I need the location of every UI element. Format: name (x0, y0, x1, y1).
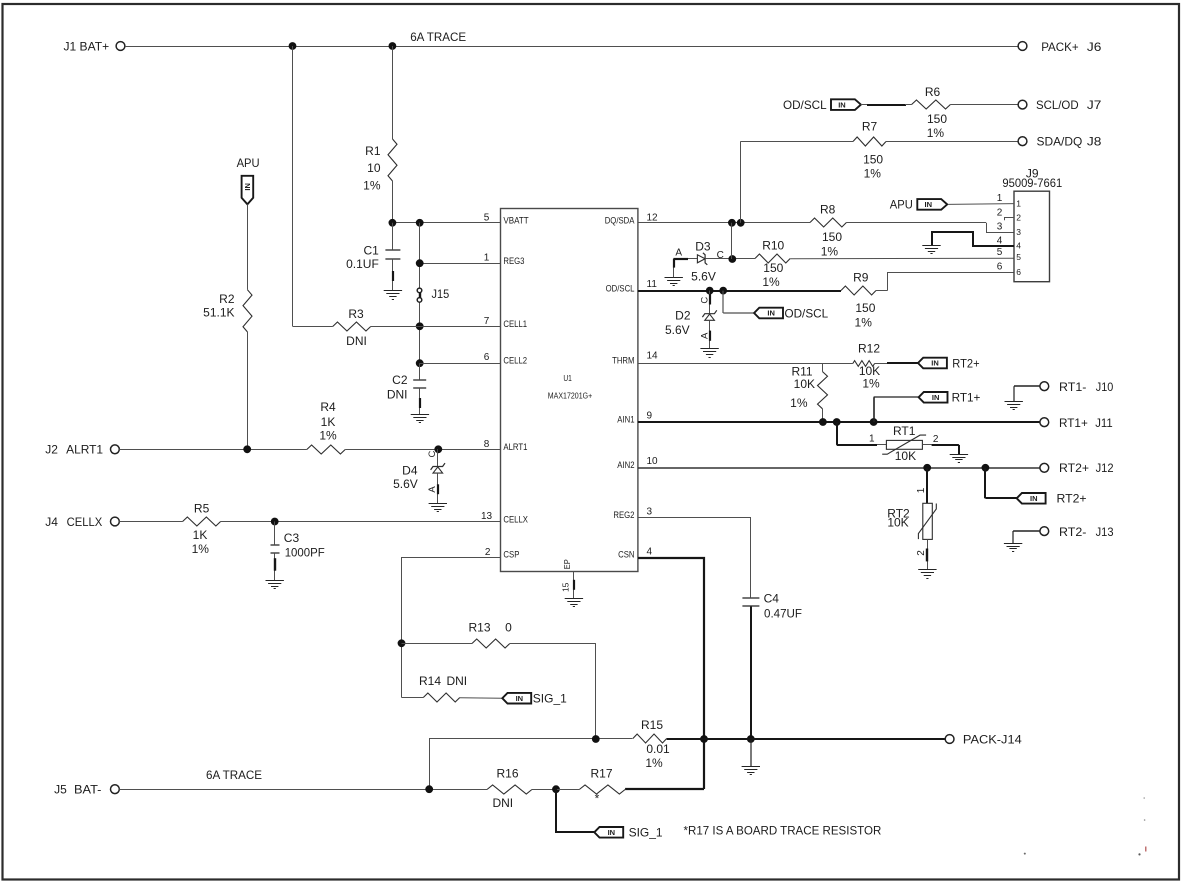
wire C2 to ground (419, 388, 422, 414)
wire C1 to ground (392, 259, 395, 291)
terminal J2 ALRT1 (45, 443, 119, 457)
pin number 4 CSN (647, 547, 653, 558)
IC U1 MAX17201G+ (501, 209, 638, 572)
resistor R16 (487, 767, 532, 811)
svg-text:IN: IN (932, 393, 940, 402)
svg-text:51.1K: 51.1K (203, 306, 234, 320)
svg-text:1%: 1% (363, 178, 381, 192)
junction CELL1 (416, 322, 424, 330)
resistor R4 (307, 400, 345, 454)
J9 pin 2 stub (1004, 218, 1014, 221)
resistor R5 (183, 502, 221, 556)
junction C4 PACK- (747, 735, 755, 743)
ground below C1 (384, 291, 402, 300)
svg-text:J1 BAT+: J1 BAT+ (64, 39, 110, 53)
svg-text:IN: IN (1030, 494, 1038, 503)
pin number 12 DQ/SDA (647, 212, 659, 223)
jumper J15 (417, 287, 449, 302)
node APU (top-left) (237, 156, 260, 204)
junction R10 line (728, 255, 736, 263)
U1 pin name REG3 (503, 256, 524, 267)
wire R6 to J7 (950, 104, 1018, 106)
junction OD/SCL B (719, 287, 727, 295)
svg-text:IN: IN (838, 100, 846, 109)
resistor R7 (853, 119, 886, 180)
label 6A TRACE top (410, 30, 466, 44)
U1 pin name ALRT1 (503, 442, 527, 453)
ground below EP (565, 599, 583, 607)
wire J13 to ground (1013, 531, 1040, 543)
terminal J11 RT1+ (1040, 416, 1113, 430)
junction CELL2 (416, 359, 424, 367)
wire APU to J9 pin 1 (948, 203, 1014, 206)
svg-text:150: 150 (763, 261, 783, 275)
svg-text:CELLX: CELLX (503, 514, 528, 525)
pin number 6 CELL2 (484, 352, 490, 363)
wire AIN1 pin 9 (thick) (638, 421, 1040, 423)
ground below C2 (411, 415, 429, 423)
svg-text:*: * (595, 792, 600, 806)
svg-text:1%: 1% (762, 275, 780, 289)
J9 outside pin numbers (997, 193, 1003, 272)
wire C3 to ground (274, 553, 277, 580)
label 6A TRACE bottom (206, 768, 262, 782)
svg-text:R16: R16 (496, 767, 518, 781)
svg-text:5.6V: 5.6V (665, 323, 690, 337)
svg-text:RT2+: RT2+ (1057, 492, 1087, 506)
pin number 9 AIN1 (647, 410, 653, 421)
U1 pin EP label (562, 559, 572, 569)
diode D3 (675, 240, 724, 284)
svg-text:IN: IN (931, 359, 939, 368)
svg-text:J12: J12 (1096, 461, 1114, 475)
svg-text:ALRT1: ALRT1 (503, 442, 527, 453)
svg-text:1K: 1K (321, 415, 336, 429)
J9 inside pin numbers (1016, 198, 1021, 276)
terminal J8 SDA/DQ (1018, 135, 1102, 149)
svg-text:PACK+: PACK+ (1041, 40, 1078, 54)
node RT2+ (THRM flag) (918, 356, 980, 370)
wire REG3 pin 1 (420, 263, 500, 265)
svg-text:3: 3 (997, 222, 1003, 233)
svg-text:RT2+: RT2+ (1059, 461, 1089, 475)
svg-text:REG3: REG3 (503, 256, 524, 267)
resistor R1 (363, 139, 397, 192)
junction VBATT B (416, 219, 424, 227)
svg-text:5: 5 (1016, 252, 1021, 262)
svg-text:IN: IN (516, 694, 524, 703)
capacitor C3 (271, 531, 325, 559)
wire REG2 pin 3 (638, 517, 751, 598)
wire APU to R2 (247, 204, 249, 289)
svg-text:DNI: DNI (492, 796, 513, 810)
pin number 13 CELLX (481, 511, 493, 522)
svg-text:R10: R10 (762, 238, 784, 252)
svg-text:C: C (717, 250, 724, 261)
pin number 7 CELL1 (484, 316, 490, 327)
wire VBATT pin 5 (392, 222, 500, 224)
wire BAT- row (119, 789, 556, 791)
svg-text:R12: R12 (858, 342, 880, 356)
svg-text:6A TRACE: 6A TRACE (410, 30, 466, 44)
svg-text:4: 4 (647, 547, 653, 558)
wire J9 pin 4 to ground (thick) (932, 232, 1014, 246)
wire VBATT junction down to CELL2 (419, 223, 421, 363)
svg-text:R13: R13 (468, 620, 490, 634)
svg-text:C4: C4 (764, 592, 780, 606)
svg-text:6: 6 (997, 262, 1003, 273)
svg-text:8: 8 (484, 439, 490, 450)
wire PACK- left segment (430, 739, 633, 790)
svg-text:RT1+: RT1+ (1059, 416, 1088, 430)
resistor R13 (402, 620, 513, 648)
junction AIN1 C (870, 418, 878, 426)
svg-text:1: 1 (997, 193, 1003, 204)
svg-text:11: 11 (647, 279, 658, 290)
svg-text:C2: C2 (392, 373, 408, 387)
svg-text:CELL1: CELL1 (503, 319, 527, 330)
wire R13 to PACK- line (510, 643, 596, 739)
svg-text:RT1+: RT1+ (952, 391, 981, 405)
svg-text:2: 2 (916, 550, 927, 556)
pin number 8 ALRT1 (484, 439, 490, 450)
svg-text:SCL/OD: SCL/OD (1036, 98, 1079, 112)
svg-text:5: 5 (484, 212, 490, 223)
U1 pin name AIN2 (617, 460, 634, 471)
svg-text:D4: D4 (402, 463, 418, 477)
junction AIN2 A (923, 464, 931, 472)
U1 pin number 15 EP (561, 582, 571, 592)
U1 pin name CSP (503, 550, 519, 561)
U1 pin name CSN (618, 550, 635, 561)
svg-text:6: 6 (484, 352, 490, 363)
junction REG3 (416, 259, 424, 267)
svg-text:R6: R6 (925, 85, 941, 99)
svg-text:1%: 1% (862, 376, 880, 390)
terminal J4 CELLX (45, 515, 119, 529)
svg-text:D2: D2 (675, 309, 691, 323)
ground left of D3 (665, 278, 683, 286)
svg-text:VBATT: VBATT (503, 216, 528, 227)
svg-text:4: 4 (1016, 241, 1021, 251)
svg-text:7: 7 (484, 316, 490, 327)
thermistor RT2 (887, 487, 936, 555)
note *R17 IS A BOARD TRACE RESISTOR (684, 824, 882, 838)
junction AIN2 B (982, 464, 990, 472)
wire THRM pin 14 (638, 362, 918, 365)
resistor R2 (203, 290, 252, 332)
svg-text:2: 2 (997, 207, 1003, 218)
junction CELLX (271, 518, 279, 526)
svg-text:150: 150 (863, 152, 883, 166)
wire R16 to R17 (556, 789, 579, 791)
pin number 1 REG3 (484, 253, 490, 264)
svg-text:1000PF: 1000PF (285, 545, 325, 559)
U1 pin name VBATT (503, 216, 528, 227)
svg-text:150: 150 (855, 301, 875, 315)
svg-text:DNI: DNI (346, 334, 367, 348)
ground below J13 (1004, 544, 1022, 552)
wire CSP vertical to R14 (402, 697, 424, 699)
node APU (J9 flag) (890, 198, 947, 212)
svg-text:IN: IN (608, 828, 616, 837)
svg-text:R15: R15 (641, 718, 663, 732)
svg-text:RT1: RT1 (893, 424, 916, 438)
svg-text:REG2: REG2 (613, 510, 634, 521)
resistor R11 (790, 363, 827, 410)
resistor R9 (841, 271, 876, 330)
junction AIN1 B (833, 418, 841, 426)
svg-text:A: A (427, 486, 438, 493)
ground below RT2 (918, 570, 936, 579)
terminal J14 PACK- (945, 732, 1022, 746)
wire RT1 pin 2 to ground (922, 445, 959, 455)
pin number 10 AIN2 (647, 456, 659, 467)
capacitor C4 (742, 592, 802, 621)
thermistor RT1 (869, 424, 939, 463)
svg-text:J5: J5 (54, 783, 67, 797)
svg-text:DNI: DNI (387, 388, 408, 402)
svg-text:5: 5 (997, 247, 1003, 258)
resistor R15 (633, 718, 670, 770)
svg-text:J13: J13 (1096, 525, 1114, 539)
junction R13 line (398, 639, 406, 647)
wire R1 to VBATT (392, 181, 394, 223)
svg-text:10K: 10K (887, 515, 908, 529)
svg-text:C3: C3 (284, 531, 300, 545)
svg-text:APU: APU (237, 156, 260, 170)
U1 pin name CELLX (503, 514, 528, 525)
U1 pin name CELL1 (503, 319, 527, 330)
svg-text:AIN1: AIN1 (617, 414, 634, 425)
svg-text:6A TRACE: 6A TRACE (206, 768, 262, 782)
svg-text:5.6V: 5.6V (393, 477, 418, 491)
svg-text:J10: J10 (1096, 380, 1114, 394)
U1 EP pin stem (573, 572, 576, 599)
wire AIN2 pin 10 (638, 467, 1040, 469)
wire R17 to CSN vertical (thick) (625, 788, 704, 790)
svg-text:RT1-: RT1- (1059, 380, 1086, 394)
wire R2 to ALRT1 (247, 332, 249, 449)
svg-text:0.01: 0.01 (646, 742, 670, 756)
junction OD/SCL A (706, 287, 714, 295)
svg-text:J15: J15 (432, 287, 450, 301)
svg-text:1%: 1% (645, 756, 663, 770)
wire CELL2 to C2 (419, 363, 421, 379)
diode D4 (393, 449, 445, 503)
wire BAT+ to R1 (392, 46, 394, 139)
svg-text:AIN2: AIN2 (617, 460, 634, 471)
node RT1+ (flag) (874, 391, 981, 422)
svg-text:R2: R2 (219, 292, 235, 306)
terminal J7 SCL/OD (1018, 98, 1102, 112)
svg-text:1K: 1K (193, 528, 208, 542)
svg-text:RT2-: RT2- (1059, 525, 1086, 539)
terminal J5 BAT- (54, 783, 119, 797)
wire D3 anode (674, 259, 698, 278)
wire R10 to J9 pin 5 (790, 257, 1014, 260)
svg-text:CELL2: CELL2 (503, 356, 527, 367)
svg-text:IN: IN (767, 309, 775, 318)
resistor R10 (755, 238, 790, 289)
svg-text:R3: R3 (348, 307, 364, 321)
svg-text:2: 2 (1016, 213, 1021, 223)
svg-text:1: 1 (869, 434, 875, 445)
junction ALRT1 B (434, 445, 442, 453)
wire junction to ground (750, 739, 752, 766)
node OD/SCL (top flag) (783, 98, 861, 112)
ground below D4 (429, 504, 447, 512)
svg-text:A: A (675, 247, 682, 258)
wire R15 to J14 (thick) (667, 738, 946, 740)
svg-text:0.1UF: 0.1UF (346, 257, 379, 271)
wire CELL1 pin 7 (293, 326, 501, 328)
wire OD/SCL pin 11 (thick) (638, 290, 841, 292)
svg-text:THRM: THRM (612, 356, 634, 367)
svg-text:IN: IN (925, 200, 933, 209)
node RT2+ (lower flag) (985, 468, 1087, 506)
svg-text:10K: 10K (794, 377, 815, 391)
svg-text:2: 2 (933, 434, 939, 445)
svg-text:SIG_1: SIG_1 (629, 826, 663, 840)
svg-text:4: 4 (997, 235, 1003, 246)
svg-text:CSN: CSN (618, 550, 635, 561)
svg-text:MAX17201G+: MAX17201G+ (548, 390, 592, 400)
svg-text:R17: R17 (590, 767, 612, 781)
svg-text:IN: IN (243, 183, 252, 191)
node OD/SCL (mid flag) (723, 291, 828, 321)
wire AIN2 to RT2 (thick) (926, 468, 928, 504)
ground below J10 (1005, 402, 1023, 410)
pin number 14 THRM (647, 350, 659, 361)
terminal J6 PACK+ (1018, 40, 1102, 54)
svg-text:OD/SCL: OD/SCL (606, 283, 635, 294)
svg-text:1%: 1% (927, 126, 945, 140)
wire CSP pin 2 (402, 558, 501, 698)
junction ALRT1 A (243, 445, 251, 453)
U1 pin name OD/SCL (606, 283, 635, 294)
svg-text:2: 2 (485, 547, 491, 558)
node SIG_1 (bottom flag) (556, 789, 663, 840)
svg-text:DNI: DNI (446, 674, 467, 688)
pin number 3 REG2 (647, 506, 653, 517)
resistor R6 (912, 85, 951, 140)
svg-text:PACK-J14: PACK-J14 (963, 732, 1022, 746)
resistor R14 (419, 674, 467, 702)
wire CELLX to C3 (274, 522, 276, 545)
svg-text:14: 14 (647, 350, 659, 361)
terminal J13 RT2- (1040, 525, 1114, 539)
svg-text:R4: R4 (320, 400, 336, 414)
wire R11 to AIN1 (822, 409, 824, 422)
wire ALRT1 pin 8 (119, 449, 500, 451)
wire D3 cathode to junction (706, 258, 755, 260)
svg-text:CSP: CSP (503, 550, 519, 561)
svg-text:1%: 1% (192, 542, 210, 556)
svg-text:U1: U1 (563, 373, 572, 383)
svg-text:CELLX: CELLX (67, 515, 103, 529)
node SIG_1 (mid flag) (460, 692, 567, 706)
svg-text:1%: 1% (855, 316, 873, 330)
svg-text:R1: R1 (365, 144, 381, 158)
svg-text:J8: J8 (1087, 135, 1102, 149)
svg-text:150: 150 (927, 112, 947, 126)
svg-text:C1: C1 (363, 243, 379, 257)
wire R7 net (741, 141, 1019, 223)
svg-text:R14: R14 (419, 674, 441, 688)
svg-text:SDA/DQ: SDA/DQ (1037, 135, 1083, 149)
svg-text:OD/SCL: OD/SCL (785, 306, 829, 320)
speck marks bottom right (1024, 797, 1147, 855)
svg-text:RT2+: RT2+ (952, 356, 979, 370)
junction AIN1 A (819, 418, 827, 426)
svg-text:J4: J4 (45, 515, 58, 529)
U1 pin name REG2 (613, 510, 634, 521)
terminal J10 RT1- (1040, 380, 1114, 394)
junction VBATT A (389, 219, 397, 227)
terminal J1 BAT+ (64, 39, 125, 53)
terminal J12 RT2+ (1040, 461, 1114, 475)
svg-text:1: 1 (916, 487, 927, 493)
svg-text:0.47UF: 0.47UF (764, 606, 802, 620)
svg-text:9: 9 (647, 410, 653, 421)
junction PACK- A (592, 735, 600, 743)
wire DQ/SDA pin 12 (638, 223, 1014, 233)
svg-text:APU: APU (890, 198, 913, 212)
ground below D2 (700, 349, 718, 358)
resistor R17 (579, 767, 625, 806)
svg-text:3: 3 (647, 506, 653, 517)
svg-text:OD/SCL: OD/SCL (783, 98, 827, 112)
svg-text:1: 1 (484, 253, 490, 264)
wire DQ/SDA to R10 line (vertical) (731, 223, 733, 259)
svg-text:DQ/SDA: DQ/SDA (605, 216, 635, 227)
resistor R3 (333, 307, 371, 348)
svg-text:R8: R8 (820, 203, 836, 217)
U1 pin name DQ/SDA (605, 216, 635, 227)
svg-text:10: 10 (647, 456, 659, 467)
resistor R12 (853, 342, 881, 391)
svg-text:5.6V: 5.6V (691, 269, 716, 283)
svg-text:1%: 1% (319, 429, 337, 443)
junction BAT- A (425, 785, 433, 793)
wire CELLX pin 13 (119, 521, 500, 523)
svg-text:10: 10 (367, 161, 381, 175)
capacitor C2 (387, 373, 426, 402)
svg-text:J7: J7 (1087, 98, 1102, 112)
pin number 2 CSP (485, 547, 491, 558)
ground J9 pin 4 (922, 246, 940, 254)
svg-text:D3: D3 (695, 240, 711, 254)
svg-text:J11: J11 (1095, 416, 1113, 430)
U1 pin name CELL2 (503, 356, 527, 367)
svg-text:3: 3 (1016, 227, 1021, 237)
svg-text:1: 1 (1016, 198, 1021, 208)
junction DQ/SDA B (737, 219, 745, 227)
svg-text:1%: 1% (790, 396, 808, 410)
diode D2 (665, 291, 717, 349)
connector J9 95009-7661 (1002, 166, 1062, 281)
ground right of RT1 (950, 455, 968, 463)
capacitor C1 (346, 243, 400, 271)
svg-text:95009-7661: 95009-7661 (1002, 176, 1062, 190)
svg-text:R7: R7 (862, 119, 878, 133)
svg-text:12: 12 (647, 212, 659, 223)
svg-text:EP: EP (562, 559, 572, 569)
svg-text:10K: 10K (895, 449, 916, 463)
junction BAT+ B (389, 42, 397, 50)
junction BAT+ A (289, 42, 297, 50)
